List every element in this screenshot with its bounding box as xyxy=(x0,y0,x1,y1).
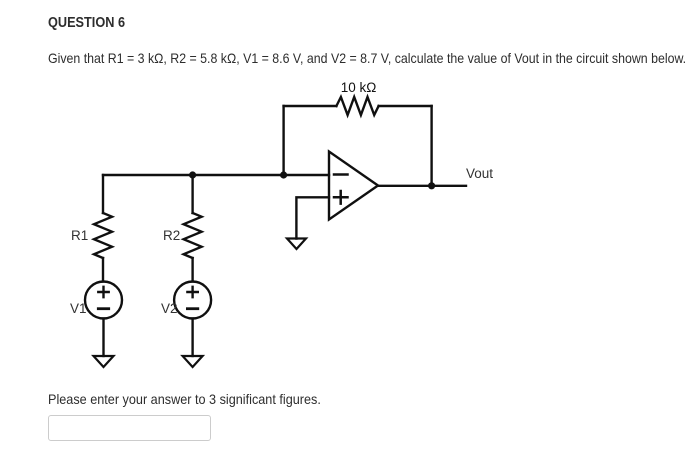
svg-text:Vout: Vout xyxy=(466,166,493,181)
resistor Rf 10k xyxy=(336,97,378,115)
wire feedback left vertical xyxy=(282,106,284,175)
ground (op-amp +) xyxy=(287,239,306,250)
wire V2 to ground xyxy=(191,319,193,357)
wire output xyxy=(378,185,466,187)
wire R1 to V1 xyxy=(102,258,104,282)
wire feedback top left xyxy=(284,105,337,107)
wire feedback right vertical xyxy=(430,106,432,186)
question title xyxy=(48,15,125,31)
node A junction (R2/bus) xyxy=(189,171,196,178)
problem statement xyxy=(48,51,686,66)
wire feedback top right xyxy=(379,105,432,107)
node B junction (feedback/bus) xyxy=(280,171,287,178)
svg-text:V2: V2 xyxy=(161,301,178,316)
resistor R1 xyxy=(94,213,112,258)
answer prompt xyxy=(48,392,321,407)
wire V1 to ground xyxy=(102,319,104,357)
wire R1 top xyxy=(102,175,104,213)
answer input box xyxy=(48,415,211,441)
svg-text:V1: V1 xyxy=(70,301,87,316)
ground (V1) xyxy=(94,356,114,367)
ground (V2) xyxy=(183,356,203,367)
wire R2 top xyxy=(191,175,193,213)
op-amp plus xyxy=(334,191,348,204)
node C junction (output/feedback) xyxy=(428,182,435,189)
resistor R2 xyxy=(184,213,202,258)
source V2 xyxy=(174,282,211,319)
svg-text:R2: R2 xyxy=(163,228,180,243)
svg-text:10 kΩ: 10 kΩ xyxy=(341,80,377,95)
wire plus input xyxy=(296,197,329,238)
wire R2 to V2 xyxy=(191,258,193,282)
op-amp U1 xyxy=(329,152,378,220)
source V1 xyxy=(85,282,122,319)
svg-text:R1: R1 xyxy=(71,228,88,243)
wire input bus xyxy=(103,174,329,176)
op-amp minus xyxy=(334,173,348,176)
